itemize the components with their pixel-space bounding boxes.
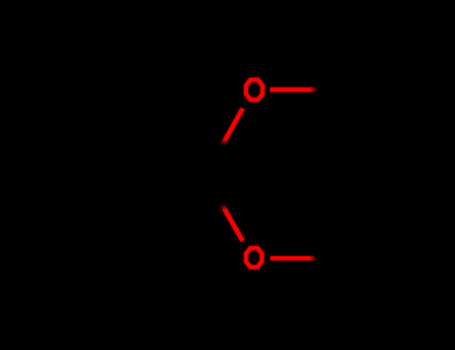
bond O1-CH2 top horizontal (red half, fades to black) xyxy=(270,87,317,92)
bond C2-O3 diagonal bottom (red half, fades to black) xyxy=(222,205,243,241)
atom O3 label (bottom oxygen) xyxy=(246,248,262,267)
bond O3-CH2 bottom horizontal (red half, fades to black) xyxy=(270,256,316,261)
atom O1 label (top oxygen) xyxy=(246,80,262,100)
bond C2-O1 diagonal top (red half, fades to black) xyxy=(222,108,242,145)
